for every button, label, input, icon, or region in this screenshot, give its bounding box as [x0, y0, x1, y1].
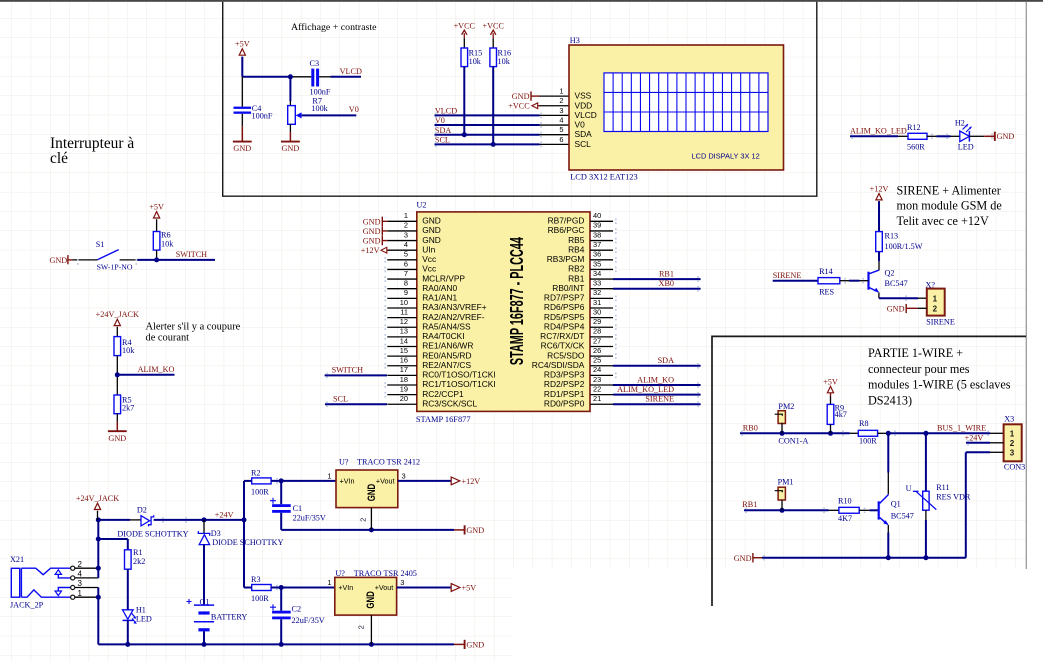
svg-text:VLCD: VLCD [435, 107, 457, 116]
svg-text:4k7: 4k7 [835, 410, 847, 419]
svg-text:RD0/PSP0: RD0/PSP0 [544, 398, 585, 408]
svg-text:4: 4 [559, 115, 563, 124]
svg-text:RC3/SCK/SCL: RC3/SCK/SCL [422, 398, 477, 408]
svg-text:RC7/RX/DT: RC7/RX/DT [540, 331, 584, 341]
svg-text:GND: GND [997, 132, 1015, 141]
svg-text:15: 15 [400, 346, 408, 355]
svg-text:33: 33 [593, 279, 601, 288]
svg-text:+5V: +5V [462, 584, 477, 593]
svg-text:TRACO TSR 2412: TRACO TSR 2412 [357, 457, 420, 466]
svg-text:35: 35 [593, 259, 601, 268]
svg-text:PM1: PM1 [778, 478, 794, 487]
svg-text:ALIM_KO_LED: ALIM_KO_LED [850, 127, 907, 136]
svg-text:20: 20 [400, 394, 408, 403]
svg-text:37: 37 [593, 240, 601, 249]
svg-text:RC0/T1OSO/T1CKI: RC0/T1OSO/T1CKI [422, 370, 496, 380]
svg-text:+5V: +5V [149, 203, 164, 212]
svg-text:RC6/TX/CK: RC6/TX/CK [541, 341, 585, 351]
svg-text:X?: X? [926, 281, 936, 290]
svg-text:H1: H1 [136, 605, 146, 614]
svg-text:4: 4 [78, 570, 83, 579]
svg-text:DIODE SCHOTTKY: DIODE SCHOTTKY [212, 538, 283, 547]
svg-text:+VCC: +VCC [508, 102, 530, 111]
svg-text:SIRENE + Alimenter: SIRENE + Alimenter [897, 183, 1001, 197]
svg-text:GND: GND [233, 144, 251, 153]
svg-text:3: 3 [402, 472, 406, 481]
svg-text:SIRENE: SIRENE [773, 271, 802, 280]
svg-text:23: 23 [593, 375, 601, 384]
svg-text:+Vout: +Vout [376, 477, 395, 486]
svg-text:100R: 100R [251, 594, 269, 603]
svg-text:RB0: RB0 [743, 424, 758, 433]
svg-text:10: 10 [400, 298, 408, 307]
svg-text:RD2/PSP2: RD2/PSP2 [544, 379, 585, 389]
svg-text:RD3/PSP3: RD3/PSP3 [544, 370, 585, 380]
svg-text:22uF/35V: 22uF/35V [293, 514, 326, 523]
svg-text:+24V_JACK: +24V_JACK [76, 494, 119, 503]
svg-text:5: 5 [404, 250, 408, 259]
svg-text:GND: GND [466, 526, 484, 535]
svg-text:11: 11 [400, 307, 408, 316]
svg-text:STAMP 16F877 - PLCC44: STAMP 16F877 - PLCC44 [507, 237, 527, 365]
svg-text:Q2: Q2 [885, 269, 895, 278]
svg-text:10k: 10k [122, 346, 135, 355]
svg-text:VLCD: VLCD [340, 67, 362, 76]
svg-text:PARTIE 1-WIRE +: PARTIE 1-WIRE + [868, 346, 963, 360]
svg-text:4: 4 [404, 240, 408, 249]
svg-text:CON3: CON3 [1004, 463, 1025, 472]
svg-text:9: 9 [404, 288, 408, 297]
svg-text:GND: GND [422, 216, 441, 226]
svg-text:LCD 3X12 EAT123: LCD 3X12 EAT123 [570, 173, 637, 182]
svg-text:2: 2 [78, 560, 83, 569]
svg-text:ALIM_KO_LED: ALIM_KO_LED [617, 385, 674, 394]
svg-text:RA2/AN2/VREF-: RA2/AN2/VREF- [422, 312, 485, 322]
svg-text:10k: 10k [469, 57, 482, 66]
svg-text:U?: U? [335, 569, 345, 578]
svg-text:RB5: RB5 [568, 235, 585, 245]
svg-text:RD4/PSP4: RD4/PSP4 [544, 321, 585, 331]
svg-text:connecteur pour mes: connecteur pour mes [868, 362, 970, 376]
svg-text:RES VDR: RES VDR [936, 492, 971, 501]
svg-text:mon module GSM de: mon module GSM de [897, 199, 1002, 213]
svg-text:100nF: 100nF [310, 88, 331, 97]
svg-text:2: 2 [559, 96, 563, 105]
svg-text:13: 13 [400, 327, 408, 336]
svg-text:X3: X3 [1004, 414, 1014, 423]
svg-text:R3: R3 [251, 575, 261, 584]
svg-text:2k7: 2k7 [122, 404, 134, 413]
svg-text:Vcc: Vcc [422, 254, 436, 264]
svg-text:R10: R10 [838, 497, 852, 506]
svg-text:12: 12 [400, 317, 408, 326]
svg-text:RB1: RB1 [659, 269, 674, 278]
svg-text:H2: H2 [955, 119, 965, 128]
svg-text:SDA: SDA [575, 129, 593, 139]
svg-text:SWITCH: SWITCH [176, 250, 207, 259]
svg-text:U: U [906, 484, 912, 493]
svg-text:SDA: SDA [435, 126, 451, 135]
svg-text:LED: LED [958, 143, 974, 152]
svg-text:RC2/CCP1: RC2/CCP1 [422, 389, 464, 399]
svg-text:Q1: Q1 [891, 500, 901, 509]
svg-text:de courant: de courant [146, 332, 190, 343]
svg-text:R8: R8 [859, 419, 869, 428]
svg-text:PM2: PM2 [778, 402, 794, 411]
svg-text:2: 2 [357, 625, 366, 629]
svg-text:2: 2 [1010, 439, 1015, 448]
svg-text:GND: GND [49, 256, 67, 265]
svg-text:LED: LED [136, 615, 152, 624]
svg-text:LCD DISPALY 3X 12: LCD DISPALY 3X 12 [692, 151, 760, 160]
svg-text:Alerter s'il y a coupure: Alerter s'il y a coupure [146, 321, 241, 332]
svg-text:RA5/AN4/SS: RA5/AN4/SS [422, 321, 471, 331]
svg-text:3: 3 [1010, 449, 1015, 458]
svg-text:V0: V0 [349, 105, 359, 114]
svg-text:UIn: UIn [422, 244, 435, 254]
svg-text:RE2/AN7/CS: RE2/AN7/CS [422, 360, 471, 370]
svg-text:X21: X21 [10, 555, 24, 564]
svg-text:+Vout: +Vout [375, 583, 394, 592]
svg-text:RD7/PSP7: RD7/PSP7 [544, 293, 585, 303]
svg-text:100nF: 100nF [252, 111, 273, 120]
svg-text:RA3/AN3/VREF+: RA3/AN3/VREF+ [422, 302, 487, 312]
svg-text:R6: R6 [161, 231, 171, 240]
svg-text:TRACO TSR 2405: TRACO TSR 2405 [354, 569, 417, 578]
svg-text:+VCC: +VCC [482, 21, 504, 30]
svg-text:R14: R14 [819, 267, 833, 276]
svg-text:2: 2 [359, 518, 368, 522]
svg-text:RB2: RB2 [568, 264, 585, 274]
svg-text:SW-1P-NO: SW-1P-NO [97, 263, 133, 272]
svg-text:GND: GND [282, 144, 300, 153]
svg-text:GND: GND [366, 484, 378, 502]
svg-text:16: 16 [400, 356, 408, 365]
svg-text:+24V_JACK: +24V_JACK [96, 310, 139, 319]
svg-text:GND: GND [466, 640, 484, 649]
svg-text:RA1/AN1: RA1/AN1 [422, 293, 457, 303]
svg-text:22: 22 [593, 384, 601, 393]
svg-text:VSS: VSS [575, 91, 592, 101]
svg-text:ALIM_KO: ALIM_KO [637, 375, 674, 384]
svg-text:RES: RES [819, 287, 834, 296]
svg-text:BATTERY: BATTERY [211, 612, 247, 621]
svg-text:+12V: +12V [361, 246, 380, 255]
svg-text:RB1: RB1 [742, 500, 757, 509]
svg-text:RD6/PSP6: RD6/PSP6 [544, 302, 585, 312]
svg-text:DS2413): DS2413) [868, 393, 912, 407]
svg-text:GND: GND [365, 591, 377, 609]
svg-text:6: 6 [404, 259, 408, 268]
svg-text:R2: R2 [251, 469, 261, 478]
svg-text:H3: H3 [570, 36, 580, 45]
svg-text:RB4: RB4 [568, 244, 585, 254]
svg-text:1: 1 [559, 87, 563, 96]
svg-text:DIODE SCHOTTKY: DIODE SCHOTTKY [117, 530, 188, 539]
svg-text:RA0/AN0: RA0/AN0 [422, 283, 457, 293]
svg-text:V0: V0 [575, 120, 586, 130]
svg-text:3: 3 [404, 230, 408, 239]
svg-text:MCLR/VPP: MCLR/VPP [422, 273, 465, 283]
svg-text:25: 25 [593, 356, 601, 365]
svg-text:Affichage + contraste: Affichage + contraste [291, 22, 377, 33]
svg-text:ALIM_KO: ALIM_KO [138, 365, 175, 374]
svg-text:100k: 100k [311, 104, 328, 113]
svg-text:R12: R12 [907, 123, 921, 132]
svg-text:GND: GND [734, 554, 752, 563]
svg-text:C3: C3 [310, 59, 320, 68]
svg-text:1: 1 [78, 589, 83, 598]
svg-text:RC4/SDI/SDA: RC4/SDI/SDA [532, 360, 585, 370]
svg-text:CON1-A: CON1-A [778, 437, 808, 446]
svg-text:RC1/T1OSO/T1CKI: RC1/T1OSO/T1CKI [422, 379, 496, 389]
svg-text:SWITCH: SWITCH [332, 366, 363, 375]
svg-text:C1: C1 [293, 504, 303, 513]
svg-text:SIRENE: SIRENE [645, 395, 674, 404]
svg-text:29: 29 [593, 317, 601, 326]
svg-text:1: 1 [404, 211, 408, 220]
svg-text:SCL: SCL [333, 395, 348, 404]
svg-text:GND: GND [108, 434, 126, 443]
svg-text:RE1/AN6/WR: RE1/AN6/WR [422, 341, 473, 351]
svg-text:D3: D3 [211, 529, 221, 538]
svg-text:Telit avec ce +12V: Telit avec ce +12V [897, 214, 990, 228]
svg-text:RA4/T0CKI: RA4/T0CKI [422, 331, 464, 341]
svg-text:100R: 100R [251, 487, 269, 496]
svg-text:8: 8 [404, 279, 408, 288]
svg-text:19: 19 [400, 384, 408, 393]
svg-text:24: 24 [593, 365, 601, 374]
svg-text:6: 6 [559, 135, 563, 144]
svg-text:RB6/PGC: RB6/PGC [548, 225, 585, 235]
svg-text:27: 27 [593, 336, 601, 345]
svg-text:GND: GND [422, 235, 441, 245]
svg-text:26: 26 [593, 346, 601, 355]
svg-text:21: 21 [593, 394, 601, 403]
svg-text:RB3/PGM: RB3/PGM [547, 254, 585, 264]
svg-text:Vcc: Vcc [422, 264, 436, 274]
svg-text:U2: U2 [417, 200, 427, 209]
svg-text:+12V: +12V [870, 184, 889, 193]
svg-text:30: 30 [593, 307, 601, 316]
svg-text:BC547: BC547 [891, 512, 914, 521]
svg-text:SCL: SCL [435, 135, 450, 144]
svg-text:7: 7 [404, 269, 408, 278]
svg-text:17: 17 [400, 365, 408, 374]
svg-text:RB7/PGD: RB7/PGD [548, 216, 585, 226]
svg-text:36: 36 [593, 250, 601, 259]
svg-text:RC5/SDO: RC5/SDO [547, 350, 585, 360]
svg-text:GND: GND [422, 225, 441, 235]
svg-text:10k: 10k [161, 240, 174, 249]
svg-text:100R: 100R [859, 437, 877, 446]
svg-text:+VIn: +VIn [338, 583, 353, 592]
svg-text:2: 2 [933, 304, 938, 313]
svg-text:XB0: XB0 [659, 279, 674, 288]
svg-text:R11: R11 [936, 483, 949, 492]
svg-text:32: 32 [593, 288, 601, 297]
svg-text:SDA: SDA [658, 356, 674, 365]
svg-text:40: 40 [593, 211, 601, 220]
svg-text:+12V: +12V [462, 477, 481, 486]
svg-text:1: 1 [1010, 430, 1015, 439]
svg-text:31: 31 [593, 298, 601, 307]
svg-text:RB0/INT: RB0/INT [552, 283, 584, 293]
svg-text:C2: C2 [292, 605, 302, 614]
svg-text:+5V: +5V [235, 40, 250, 49]
svg-text:GND: GND [887, 305, 905, 314]
svg-text:U?: U? [339, 457, 349, 466]
svg-text:GND: GND [363, 217, 381, 226]
svg-text:14: 14 [400, 336, 408, 345]
svg-text:RB1: RB1 [568, 273, 585, 283]
svg-text:3: 3 [78, 579, 83, 588]
svg-text:GND: GND [363, 227, 381, 236]
svg-text:R1: R1 [133, 548, 143, 557]
svg-text:RD1/PSP1: RD1/PSP1 [544, 389, 585, 399]
svg-text:38: 38 [593, 230, 601, 239]
svg-text:3: 3 [400, 578, 404, 587]
svg-text:560R: 560R [907, 143, 925, 152]
svg-text:D2: D2 [137, 506, 147, 515]
svg-text:10k: 10k [498, 57, 511, 66]
svg-text:1: 1 [933, 295, 938, 304]
svg-text:RD5/PSP5: RD5/PSP5 [544, 312, 585, 322]
svg-text:VLCD: VLCD [575, 110, 597, 120]
svg-text:VDD: VDD [575, 100, 593, 110]
svg-text:4K7: 4K7 [838, 514, 852, 523]
svg-text:SCL: SCL [575, 139, 592, 149]
svg-text:5: 5 [559, 125, 563, 134]
svg-text:JACK_2P: JACK_2P [10, 601, 44, 610]
svg-text:1: 1 [327, 472, 331, 481]
svg-text:+VIn: +VIn [340, 477, 355, 486]
svg-text:clé: clé [50, 150, 68, 167]
svg-text:2k2: 2k2 [133, 557, 145, 566]
svg-text:GND: GND [363, 237, 381, 246]
svg-text:BUS_1_WIRE: BUS_1_WIRE [937, 424, 986, 433]
svg-text:+VCC: +VCC [454, 21, 476, 30]
svg-text:3: 3 [559, 106, 563, 115]
svg-text:SIRENE: SIRENE [926, 318, 955, 327]
svg-text:34: 34 [593, 269, 601, 278]
svg-text:100R/1.5W: 100R/1.5W [885, 242, 923, 251]
svg-text:modules 1-WIRE (5 esclaves: modules 1-WIRE (5 esclaves [868, 378, 1011, 392]
svg-text:GND: GND [512, 92, 530, 101]
svg-text:2: 2 [404, 221, 408, 230]
svg-text:STAMP 16F877: STAMP 16F877 [416, 415, 471, 424]
svg-text:+24V: +24V [215, 510, 234, 519]
svg-text:22uF/35V: 22uF/35V [292, 616, 325, 625]
svg-text:1: 1 [327, 578, 331, 587]
svg-text:+5V: +5V [823, 377, 838, 386]
svg-text:RE0/AN5/RD: RE0/AN5/RD [422, 350, 471, 360]
svg-text:18: 18 [400, 375, 408, 384]
svg-text:R13: R13 [885, 232, 899, 241]
svg-text:BC547: BC547 [885, 279, 908, 288]
svg-text:39: 39 [593, 221, 601, 230]
svg-text:S1: S1 [96, 240, 105, 249]
svg-text:28: 28 [593, 327, 601, 336]
